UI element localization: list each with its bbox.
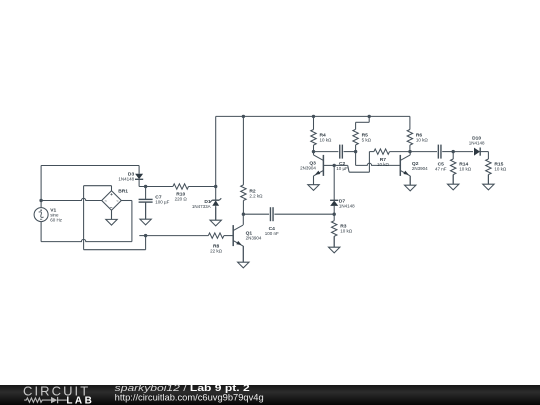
resistor R6	[407, 130, 428, 152]
svg-text:2N3904: 2N3904	[412, 166, 428, 171]
svg-text:+: +	[110, 193, 113, 198]
wire C4 right lead	[274, 213, 334, 215]
wire D7 anode lead	[333, 206, 335, 214]
svg-text:1N4148: 1N4148	[339, 204, 355, 209]
wire BR1 output riser	[145, 236, 147, 250]
transistor Q1	[233, 225, 262, 246]
CircuitLab logo wordmark	[23, 383, 92, 405]
resistor R2	[241, 116, 263, 214]
wire C7 top lead	[145, 187, 147, 200]
wire Q3 emitter	[313, 176, 315, 185]
svg-text:10 µF: 10 µF	[336, 166, 348, 171]
svg-text:1N4148: 1N4148	[118, 177, 134, 182]
transistor Q2	[400, 155, 428, 176]
footer url text	[115, 392, 264, 402]
svg-text:BR1: BR1	[118, 188, 128, 194]
node rail-R4	[312, 115, 315, 118]
node R4/C2/Q3-collector junction	[312, 150, 315, 153]
wire supply vertical (D1 junction to top rail)	[215, 116, 217, 186]
ground (R15 ground)	[483, 175, 494, 190]
svg-text:10 kΩ: 10 kΩ	[494, 167, 507, 172]
svg-text:10 kΩ: 10 kΩ	[416, 137, 429, 142]
transistor Q3	[300, 155, 323, 176]
voltage source V1	[34, 207, 63, 222]
ground (Q1 ground)	[238, 246, 249, 268]
node C5/R14/D10 junction	[452, 150, 455, 153]
node R2/C4/Q1 junction	[242, 213, 245, 216]
resistor R5	[353, 129, 372, 151]
logo squiggle (resistor + diode)	[24, 397, 67, 403]
wire R10 to D1 junction	[189, 186, 216, 188]
wire BR1 left vertical	[83, 186, 85, 250]
svg-text:2N3904: 2N3904	[246, 236, 262, 241]
wire C5 left lead	[410, 151, 437, 153]
svg-text:10 kΩ: 10 kΩ	[459, 167, 472, 172]
wire Q3 base	[323, 164, 334, 166]
wire jog diagonal	[348, 165, 349, 172]
wire jog horizontal	[349, 171, 369, 173]
ground (R14 ground)	[448, 175, 459, 190]
svg-text:60 Hz: 60 Hz	[50, 217, 63, 222]
wire C5 right lead	[442, 151, 453, 153]
resistor R10	[173, 184, 216, 202]
wire V1 top vertical	[40, 166, 42, 208]
resistor R7	[369, 149, 410, 167]
wire BR1 AC2 riser	[121, 201, 132, 242]
ground (R3 ground)	[329, 236, 340, 253]
node V1-top / BR1 AC1 junction	[39, 199, 42, 202]
diode D1	[192, 198, 221, 209]
svg-text:100 nF: 100 nF	[265, 231, 279, 236]
resistor R8	[146, 233, 234, 254]
wire R7 left riser	[368, 152, 370, 173]
wire Q3 collector	[313, 152, 315, 155]
ground (Q3 ground)	[308, 176, 319, 191]
ground (BR1 ground)	[106, 210, 117, 225]
capacitor C4	[265, 207, 279, 236]
node rail-R2	[242, 115, 245, 118]
resistor R4	[311, 116, 332, 151]
svg-text:220 Ω: 220 Ω	[175, 196, 188, 201]
node C4/D7/R3 junction	[333, 213, 336, 216]
wire Q1 emitter	[242, 246, 244, 262]
wire Q2 base (with hop)	[356, 163, 401, 165]
footer title text	[115, 383, 250, 393]
svg-text:−: −	[110, 206, 113, 211]
wire BR1 bottom vertex lead	[111, 210, 113, 219]
node C2/R5 junction	[354, 150, 357, 153]
wire top rail	[216, 115, 410, 117]
wire C2 right lead	[344, 151, 356, 153]
wire C7 bottom lead	[145, 202, 147, 219]
svg-text:47 nF: 47 nF	[435, 167, 447, 172]
diode D3	[118, 172, 143, 182]
wire D10 output corner	[487, 152, 489, 159]
svg-text:sparkyboi12 / Lab 9 pt. 2: sparkyboi12 / Lab 9 pt. 2	[115, 383, 250, 393]
svg-text:10 kΩ: 10 kΩ	[340, 229, 353, 234]
wire D3 anode lead	[138, 166, 140, 174]
node R7/R6/Q2-collector junction	[408, 150, 411, 153]
wire BR1 top vertex to left rail	[84, 186, 112, 191]
svg-text:1N4733A: 1N4733A	[192, 204, 211, 209]
wire C2 left lead	[314, 151, 339, 153]
ground (C7 ground)	[140, 202, 151, 225]
wire V1 to BR1 AC1 (with hop)	[41, 198, 102, 200]
svg-text:5 kΩ: 5 kΩ	[362, 137, 372, 142]
wire BR1 bottom horizontal	[84, 249, 146, 251]
wire V1 bottom lead	[40, 222, 42, 242]
wire D10 cathode lead	[480, 151, 488, 153]
capacitor C2	[336, 145, 348, 172]
node C7 tap junction	[144, 185, 147, 188]
wire Q2 collector	[409, 152, 411, 155]
resistor R15	[486, 159, 507, 184]
wire Q2 emitter	[409, 176, 411, 185]
wire lower rail stub	[139, 235, 145, 237]
node Q3-base/D7 junction	[333, 164, 336, 167]
svg-text:LAB: LAB	[66, 396, 91, 405]
capacitor C5	[435, 145, 447, 172]
node lower-rail junction	[144, 234, 147, 237]
wire top rail right corner	[409, 116, 411, 129]
node rail-R5	[368, 115, 371, 118]
svg-text:10 kΩ: 10 kΩ	[320, 137, 333, 142]
capacitor C7	[139, 195, 170, 205]
diode D10	[469, 135, 485, 155]
ground (D1 ground)	[210, 207, 221, 226]
wire V1 bottom horizontal (with hop)	[41, 239, 132, 241]
wire Q1 collector	[242, 214, 244, 225]
wire top-left horizontal	[41, 165, 139, 167]
svg-text:2N3904: 2N3904	[300, 166, 316, 171]
svg-text:http://circuitlab.com/c6uvg9b7: http://circuitlab.com/c6uvg9b79qv4g	[115, 392, 264, 402]
wire Q3 base to jog	[334, 164, 348, 166]
wire D3 cathode to C7 junction	[139, 179, 173, 186]
svg-text:22 kΩ: 22 kΩ	[210, 249, 223, 254]
wire R5 junction drop	[355, 152, 357, 166]
footer bar	[0, 385, 540, 405]
wire C4 left lead	[243, 213, 269, 215]
ground (Q2 ground)	[405, 176, 416, 191]
svg-text:10 kΩ: 10 kΩ	[377, 162, 390, 167]
svg-text:100 µF: 100 µF	[155, 200, 169, 205]
resistor R14	[451, 152, 472, 185]
node D1 junction	[214, 185, 217, 188]
svg-text:2.2 kΩ: 2.2 kΩ	[249, 194, 263, 199]
wire D7 cathode lead (to Q3 base node)	[333, 165, 335, 200]
wire R5 top jog	[356, 116, 370, 129]
wire zener bottom lead	[215, 206, 217, 221]
wire D10 anode lead	[453, 151, 473, 153]
wire zener top lead	[215, 187, 217, 201]
bridge rectifier BR1	[102, 188, 129, 211]
resistor R3	[332, 214, 353, 247]
diode D7	[330, 199, 355, 209]
svg-text:1N4148: 1N4148	[469, 140, 485, 145]
